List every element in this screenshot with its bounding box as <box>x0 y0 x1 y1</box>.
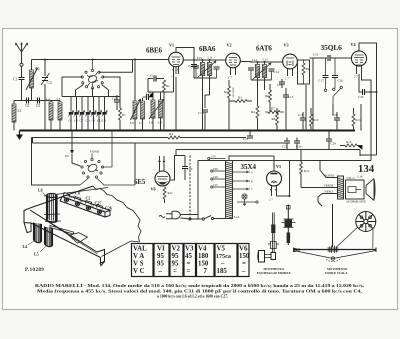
svg-text:L7: L7 <box>139 121 143 125</box>
svg-text:C9: C9 <box>92 119 96 123</box>
trimmer C12 <box>96 110 102 116</box>
coil L5 schematic <box>57 97 63 131</box>
coil L7 <box>139 98 145 131</box>
capacitor C13a <box>214 67 220 69</box>
capacitor C21 <box>243 131 253 142</box>
antenna <box>15 43 27 78</box>
svg-text:C1: C1 <box>13 78 17 82</box>
capacitor C13 <box>283 88 294 104</box>
wires switch region <box>62 77 120 131</box>
resistor R12 <box>300 150 310 188</box>
centre drum <box>328 246 339 254</box>
coil L8 <box>149 92 155 131</box>
pilot lamp <box>237 194 258 206</box>
bus junction dots <box>44 130 347 132</box>
oscillator coil L6 variable <box>130 60 141 131</box>
tuning gang block <box>60 193 110 218</box>
svg-text:C8: C8 <box>75 191 80 196</box>
svg-text:V C: V C <box>133 268 145 275</box>
wire row y143 <box>33 142 286 144</box>
svg-text:R9: R9 <box>306 67 310 71</box>
resistor R6 <box>265 84 272 112</box>
coil L4 schematic <box>46 97 53 131</box>
svg-text:C21: C21 <box>243 137 249 141</box>
capacitor C15 <box>277 79 285 88</box>
capacitor C22 <box>282 138 290 150</box>
svg-text:R6: R6 <box>265 94 269 98</box>
svg-text:V4: V4 <box>351 42 357 47</box>
svg-text:INDICE SCALA: INDICE SCALA <box>325 271 348 275</box>
svg-text:R3: R3 <box>238 96 242 100</box>
capacitor C11a <box>188 64 197 78</box>
capacitor C30 <box>358 74 378 99</box>
wire antenna input row <box>14 100 45 102</box>
svg-text:R2: R2 <box>166 84 170 88</box>
svg-text:45: 45 <box>185 253 192 260</box>
svg-text:R1: R1 <box>122 113 126 117</box>
svg-text:AZZURRO: AZZURRO <box>232 86 235 98</box>
voltage table <box>132 244 250 277</box>
resistor R10 <box>310 108 319 131</box>
svg-text:FONO: FONO <box>90 150 100 154</box>
capacitor C28 <box>332 112 340 131</box>
svg-text:140: 140 <box>213 175 218 179</box>
svg-text:–: – <box>241 268 246 275</box>
svg-text:C29: C29 <box>112 97 118 101</box>
resistor R4b <box>251 106 259 118</box>
svg-text:L13: L13 <box>263 58 269 62</box>
capacitor C10 <box>143 92 154 101</box>
svg-text:R7: R7 <box>271 107 275 111</box>
coil L9 <box>149 92 164 131</box>
svg-text:L14: L14 <box>234 215 240 219</box>
svg-text:R4: R4 <box>169 132 173 136</box>
svg-text:95: 95 <box>157 261 164 268</box>
svg-text:VI: VI <box>157 246 165 253</box>
chassis deck plate <box>30 186 93 208</box>
IF transformer T1 <box>183 56 226 79</box>
svg-text:7: 7 <box>204 268 208 275</box>
svg-text:1 7: 1 7 <box>285 77 289 81</box>
svg-text:VERDE: VERDE <box>324 184 334 188</box>
svg-text:C16: C16 <box>198 111 204 115</box>
capacitor C12a <box>193 66 199 68</box>
svg-text:V3: V3 <box>284 43 289 48</box>
svg-text:V4: V4 <box>198 246 207 253</box>
svg-text:V3: V3 <box>185 246 194 253</box>
dial window <box>69 233 87 244</box>
resistor R2 <box>163 80 171 92</box>
tube V6 6E5 magic eye <box>134 144 170 192</box>
trimmer housing C27 <box>86 201 92 206</box>
tube V5 35X4 rectifier <box>241 156 291 202</box>
svg-text:R13: R13 <box>346 140 352 144</box>
svg-text:C22: C22 <box>282 145 288 149</box>
svg-text:=: = <box>173 268 177 275</box>
trimmer housing C26 <box>97 205 103 210</box>
trimmer housing C8 <box>64 193 70 198</box>
svg-text:35QL6: 35QL6 <box>321 43 343 52</box>
verticals to bus <box>45 74 361 131</box>
V4 top wire <box>359 43 377 92</box>
svg-text:L2: L2 <box>36 67 40 71</box>
svg-text:ROSSO: ROSSO <box>325 174 336 178</box>
svg-text:C14: C14 <box>274 70 280 74</box>
mains taps <box>208 155 226 189</box>
coil can L4 hanging <box>23 223 42 250</box>
svg-text:V5: V5 <box>276 164 281 169</box>
svg-text:180: 180 <box>198 253 209 260</box>
svg-text:150: 150 <box>239 253 250 260</box>
svg-text:175ca: 175ca <box>216 253 231 260</box>
svg-text:V6: V6 <box>239 246 248 253</box>
svg-text:L11: L11 <box>208 56 213 60</box>
svg-text:134: 134 <box>358 164 375 175</box>
svg-text:C18: C18 <box>298 113 304 117</box>
chassis drawing <box>24 186 141 266</box>
wire C19 branch <box>312 58 314 131</box>
svg-text:6BA6: 6BA6 <box>199 45 216 53</box>
svg-text:C2: C2 <box>48 81 52 85</box>
trimmer housing C2 <box>75 197 81 202</box>
svg-text:C2: C2 <box>86 196 91 201</box>
trimmer C26 <box>97 210 101 214</box>
svg-text:L6: L6 <box>38 188 43 193</box>
heater feed arrows <box>233 171 254 192</box>
svg-text:EQUIPAGGIO MOBILE: EQUIPAGGIO MOBILE <box>257 271 291 275</box>
capacitor C20 <box>182 156 193 181</box>
svg-text:L6: L6 <box>130 121 134 125</box>
svg-text:C26: C26 <box>105 206 112 211</box>
svg-text:C15: C15 <box>277 83 283 87</box>
trimmer C4 <box>68 110 74 116</box>
svg-text:MOVIMENTO: MOVIMENTO <box>264 267 285 271</box>
svg-text:=: = <box>187 268 191 275</box>
svg-text:6E5: 6E5 <box>134 179 146 186</box>
svg-text:C8: C8 <box>74 119 78 123</box>
svg-text:95: 95 <box>172 261 179 268</box>
coil L2 variable <box>26 60 40 101</box>
tube V4 35QL6 <box>321 42 367 79</box>
svg-text:V A: V A <box>133 253 144 260</box>
resistor R3 horizontal <box>229 96 252 103</box>
svg-text:VAL: VAL <box>133 246 147 253</box>
resistor R13 <box>340 140 362 150</box>
top bus wire <box>32 59 169 61</box>
svg-text:C24: C24 <box>331 142 337 146</box>
svg-text:ALTOPARLANTE: ALTOPARLANTE <box>346 201 366 204</box>
capacitor C19 <box>310 53 352 62</box>
chassis rail front face <box>30 210 97 252</box>
svg-text:C17: C17 <box>319 79 325 83</box>
svg-text:L5: L5 <box>34 252 39 257</box>
svg-text:185: 185 <box>217 268 228 275</box>
svg-text:C27: C27 <box>95 201 102 206</box>
ground symbol <box>19 131 21 135</box>
wire right verticals <box>362 74 377 161</box>
svg-text:6AT6: 6AT6 <box>256 45 272 53</box>
svg-text:L10: L10 <box>197 56 203 60</box>
IF transformer T2 <box>240 58 282 81</box>
resistor R7 <box>265 107 284 114</box>
svg-text:95: 95 <box>157 253 164 260</box>
svg-text:150: 150 <box>198 261 209 268</box>
svg-text:C30: C30 <box>358 95 364 99</box>
capacitor C23 <box>294 138 302 150</box>
svg-text:R10: R10 <box>313 118 319 122</box>
svg-text:2 7: 2 7 <box>269 198 273 202</box>
tuning knob <box>258 251 265 263</box>
svg-text:C3: C3 <box>25 104 29 108</box>
svg-text:V2: V2 <box>227 43 232 48</box>
svg-text:270: 270 <box>211 155 216 159</box>
svg-text:C10: C10 <box>188 64 194 68</box>
svg-text:S.P.L.O: S.P.L.O <box>347 177 355 180</box>
svg-text:L4: L4 <box>23 244 28 249</box>
resistor R4 main <box>32 132 247 139</box>
svg-text:L1: L1 <box>18 109 22 113</box>
svg-text:L8: L8 <box>149 121 153 125</box>
svg-text:125: 125 <box>213 183 218 187</box>
svg-text:NERO: NERO <box>325 190 334 194</box>
svg-text:6BE6: 6BE6 <box>146 47 163 55</box>
diode E6 <box>65 131 81 167</box>
svg-text:RADIO MARELLI - Mod. 134. Onde: RADIO MARELLI - Mod. 134. Onde medie da … <box>35 283 364 288</box>
volume potentiometer R9 <box>298 60 310 84</box>
capacitor C3 <box>25 98 29 109</box>
capacitor C14 <box>248 68 279 74</box>
svg-text:R8: R8 <box>272 117 276 121</box>
coil L1 <box>12 101 22 131</box>
speaker <box>366 179 375 201</box>
trimmer C8 <box>74 110 80 116</box>
chassis rail end cap <box>97 250 105 266</box>
trimmer C6 <box>102 110 108 116</box>
svg-text:–: – <box>220 261 225 268</box>
trimmer C2 <box>75 202 79 206</box>
mains plug <box>159 211 226 220</box>
trimmer C8 <box>64 198 68 202</box>
svg-text:C5: C5 <box>36 104 40 108</box>
coil can L5 hanging <box>34 227 53 257</box>
svg-text:V5: V5 <box>217 246 226 253</box>
svg-text:C4: C4 <box>68 119 72 123</box>
svg-text:R11: R11 <box>356 118 362 122</box>
capacitor C16 <box>198 110 208 131</box>
svg-text:R12: R12 <box>304 169 310 173</box>
svg-text:MOVIMENTO: MOVIMENTO <box>327 267 348 271</box>
tube V2 6BA6 <box>199 43 240 80</box>
resistor R8 <box>272 108 279 131</box>
svg-text:=: = <box>187 261 191 268</box>
lead screw rod <box>273 213 275 253</box>
wire loop left <box>32 138 81 186</box>
svg-text:V S: V S <box>133 261 144 268</box>
svg-text:C7: C7 <box>80 119 84 123</box>
svg-text:V1: V1 <box>169 43 174 48</box>
svg-text:2 7: 2 7 <box>354 75 358 79</box>
svg-text:L16: L16 <box>358 175 363 179</box>
capacitor C2 variable <box>41 60 52 101</box>
cords <box>336 227 373 249</box>
long rail wires right <box>176 150 377 220</box>
tube V3 6AT6 <box>256 43 297 81</box>
svg-text:C28: C28 <box>332 113 338 117</box>
svg-text:R11: R11 <box>168 191 174 195</box>
svg-text:=: = <box>242 261 246 268</box>
svg-text:–: – <box>158 268 163 275</box>
svg-text:E6: E6 <box>65 154 69 158</box>
band switch S1 rotary <box>81 60 132 90</box>
dial slot <box>50 226 74 235</box>
dial drive mechanism <box>258 205 300 263</box>
resistor R1 <box>119 97 127 131</box>
trimmer C9 <box>91 110 97 116</box>
tube V1 6BE6 <box>146 43 183 79</box>
svg-text:P.10289: P.10289 <box>25 268 44 273</box>
power autotransformer L14 <box>226 156 275 219</box>
wire 6E5 right <box>170 156 181 181</box>
tone switch contacts C17 C26 <box>323 58 343 104</box>
svg-text:1 7: 1 7 <box>228 76 232 80</box>
svg-text:35X4: 35X4 <box>241 163 257 171</box>
drive pulley shaft <box>287 205 289 246</box>
capacitor C24 <box>326 131 336 150</box>
capacitor C5 <box>36 98 40 109</box>
svg-text:C26: C26 <box>338 79 344 83</box>
svg-text:C23: C23 <box>296 145 302 149</box>
svg-text:C6: C6 <box>103 119 107 123</box>
svg-text:V2: V2 <box>172 246 181 253</box>
svg-text:95: 95 <box>172 253 179 260</box>
svg-text:L12: L12 <box>252 58 258 62</box>
trimmer C27 <box>86 206 90 210</box>
svg-text:C13: C13 <box>288 95 294 99</box>
svg-text:C25: C25 <box>148 74 154 78</box>
ground bus <box>20 130 356 132</box>
coil can L6 tall <box>38 188 61 223</box>
svg-text:R5: R5 <box>224 90 228 94</box>
resistor R11 <box>163 187 173 203</box>
svg-text:L9: L9 <box>158 121 162 125</box>
capacitor C18 <box>298 112 306 131</box>
svg-text:C19: C19 <box>313 53 319 57</box>
resistor R14 <box>352 108 361 131</box>
svg-text:C11: C11 <box>86 119 91 123</box>
svg-text:R4: R4 <box>251 110 255 114</box>
capacitor C29 <box>112 95 120 110</box>
V1 top cap wire <box>176 48 194 65</box>
trimmer C11 <box>85 110 91 116</box>
FONO switch S2 <box>80 131 135 186</box>
pantograph V <box>294 251 377 259</box>
svg-text:160: 160 <box>213 167 218 171</box>
dial pointer mechanism <box>293 204 377 262</box>
pulley wheel <box>356 212 376 232</box>
horizontal bar <box>293 249 377 251</box>
output transformer <box>301 161 366 207</box>
capacitor C25 <box>148 74 165 82</box>
svg-text:a 1000 kc/s con L6 ed L2 ed a: a 1000 kc/s con L6 ed L2 ed a 1600 con C… <box>157 293 228 298</box>
resistor R5 <box>224 80 235 104</box>
capacitor C1 <box>13 78 25 101</box>
trimmer C7 <box>79 110 85 116</box>
svg-text:V6: V6 <box>151 187 156 192</box>
